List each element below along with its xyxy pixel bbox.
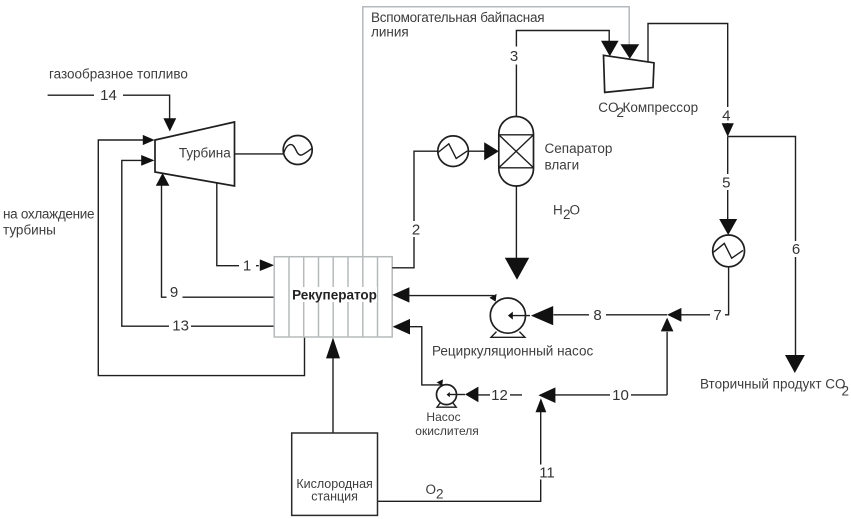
wire: recirculation pump discharge to recuperator bbox=[392, 287, 496, 302]
svg-text:7: 7 bbox=[713, 307, 721, 324]
label: газообразное топливо bbox=[49, 67, 188, 82]
wire: oxygen station to recuperator bottom bbox=[326, 338, 340, 434]
svg-text:Турбина: Турбина bbox=[179, 146, 231, 161]
svg-text:1: 1 bbox=[243, 258, 251, 275]
wire 6: branch to secondary product bbox=[728, 137, 805, 374]
svg-text:O: O bbox=[570, 203, 581, 218]
label: CO2 Компрессор bbox=[598, 100, 698, 120]
wire 4: compressor outlet bbox=[648, 24, 735, 137]
svg-text:на охлаждение: на охлаждение bbox=[3, 207, 94, 222]
svg-text:газообразное топливо: газообразное топливо bbox=[49, 67, 188, 82]
svg-text:Компрессор: Компрессор bbox=[623, 100, 699, 115]
svg-text:окислителя: окислителя bbox=[415, 424, 478, 438]
wire: recuperator to turbine inlet (main loop) bbox=[98, 135, 304, 376]
wire 3: separator top to compressor bbox=[506, 31, 619, 117]
svg-text:14: 14 bbox=[100, 87, 117, 104]
wire: separator drain H2O bbox=[505, 186, 529, 280]
generator shaft wire bbox=[235, 153, 285, 155]
svg-text:13: 13 bbox=[172, 317, 189, 334]
svg-text:5: 5 bbox=[722, 175, 730, 192]
bypass line (gray) bbox=[363, 7, 629, 257]
wire 11: oxygen station to tee bbox=[378, 412, 555, 502]
svg-text:12: 12 bbox=[491, 387, 508, 404]
svg-text:Вспомогательная байпасная: Вспомогательная байпасная bbox=[371, 10, 544, 25]
label: Сепаратор влаги bbox=[545, 141, 613, 173]
svg-text:9: 9 bbox=[170, 284, 178, 301]
label: Рециркуляционный насос bbox=[432, 344, 593, 359]
wire 8: junction to recirculation pump bbox=[553, 307, 667, 324]
svg-text:станция: станция bbox=[311, 490, 358, 504]
wire 5: to cooler bbox=[719, 137, 737, 236]
svg-text:линия: линия bbox=[371, 25, 409, 40]
svg-text:2: 2 bbox=[412, 222, 420, 239]
generator G1 bbox=[283, 136, 312, 165]
wire 1: turbine outlet to recuperator bbox=[217, 184, 274, 275]
wire 2: recuperator to heat exchanger bbox=[392, 151, 438, 268]
svg-text:Сепаратор: Сепаратор bbox=[545, 141, 613, 156]
CO2 compressor bbox=[604, 55, 655, 92]
svg-text:CO: CO bbox=[598, 100, 618, 115]
svg-text:3: 3 bbox=[510, 48, 518, 65]
turbine bbox=[155, 122, 235, 186]
recuperator bbox=[274, 257, 392, 337]
heat exchanger HX1 bbox=[438, 136, 469, 167]
moisture separator vessel bbox=[499, 117, 534, 187]
svg-text:8: 8 bbox=[593, 307, 601, 324]
svg-text:Насос: Насос bbox=[426, 410, 460, 424]
oxygen station box bbox=[292, 433, 378, 515]
label: Вспомогательная байпасная линия bbox=[371, 10, 544, 40]
wire 9: recuperator to turbine bottom bbox=[156, 173, 274, 301]
wire: HX1 to separator bbox=[468, 142, 498, 160]
svg-text:Рециркуляционный насос: Рециркуляционный насос bbox=[432, 344, 593, 359]
wire 12: tee to oxidizer pump bbox=[465, 387, 522, 404]
svg-text:2: 2 bbox=[436, 487, 444, 502]
svg-text:O: O bbox=[426, 482, 437, 497]
svg-text:влаги: влаги bbox=[545, 158, 580, 173]
label: H2O bbox=[553, 203, 580, 223]
cooler HX2 bbox=[713, 235, 745, 267]
svg-text:2: 2 bbox=[842, 384, 850, 399]
wire 7: cooler to junction bbox=[667, 267, 729, 324]
junction arrows at oxygen tee bbox=[536, 387, 556, 412]
wire 13: recuperator to turbine second inlet bbox=[122, 155, 274, 334]
svg-text:10: 10 bbox=[612, 387, 629, 404]
wire: oxidizer pump to recuperator bbox=[393, 319, 443, 386]
svg-text:6: 6 bbox=[792, 241, 800, 258]
label: O2 bbox=[426, 482, 444, 502]
svg-text:4: 4 bbox=[722, 108, 730, 125]
svg-text:турбины: турбины bbox=[3, 223, 56, 238]
bypass arrow into compressor bbox=[620, 44, 639, 58]
wire 14 (fuel line) bbox=[48, 87, 177, 132]
svg-text:Рекуператор: Рекуператор bbox=[292, 288, 377, 303]
label: Насос окислителя bbox=[415, 410, 478, 438]
label: Вторичный продукт CO2 bbox=[700, 377, 849, 399]
recirculation pump bbox=[490, 298, 553, 337]
svg-text:11: 11 bbox=[539, 465, 555, 482]
svg-text:H: H bbox=[553, 203, 563, 218]
label: на охлаждение турбины bbox=[3, 207, 94, 238]
svg-text:Вторичный продукт CO: Вторичный продукт CO bbox=[700, 377, 846, 392]
oxidizer pump bbox=[437, 385, 466, 408]
wire 10: oxygen junction up to line 8 bbox=[541, 318, 674, 404]
